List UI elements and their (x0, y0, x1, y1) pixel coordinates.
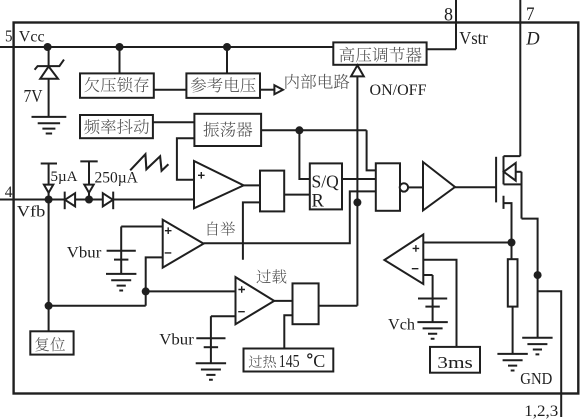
block overload latch (293, 283, 319, 324)
wire osc to S input (299, 130, 309, 179)
svg-text:7: 7 (526, 5, 535, 25)
op-amp bootstrap comparator (163, 220, 204, 268)
svg-text:3ms: 3ms (437, 353, 473, 372)
overload label (256, 269, 270, 283)
wire overload plus input (146, 290, 236, 292)
internal circuits label (285, 74, 299, 89)
wire gate to driver (408, 186, 423, 188)
svg-text:5µA: 5µA (51, 169, 78, 185)
node source sense junction (508, 239, 516, 247)
resistor sense (508, 259, 518, 306)
block blanking (260, 171, 284, 212)
wire Q output to gate (342, 178, 376, 180)
node on ON/OFF line (353, 198, 361, 206)
wire resistor to ground (512, 307, 514, 354)
node Vfb-zener-column junction (45, 196, 53, 204)
wire Vfb down to reset (48, 200, 50, 332)
op-amp PWM comparator (194, 161, 244, 208)
wire thermal to latch (284, 315, 292, 348)
svg-text:Vfb: Vfb (17, 204, 46, 221)
svg-text:8: 8 (444, 5, 453, 25)
svg-text:R: R (312, 191, 325, 211)
wire driver to MOSFET gate (455, 186, 496, 188)
flip-flop S/Q R latch (310, 163, 342, 209)
diode D2 right (112, 192, 114, 210)
block high voltage regulator (333, 42, 426, 64)
wire blanking to R input (284, 194, 310, 196)
wire burst comparator to blanking (243, 202, 260, 259)
MOSFET body arrow (504, 163, 516, 181)
svg-text:1,2,3: 1,2,3 (524, 403, 558, 419)
zener diode 7V wire (48, 47, 50, 117)
svg-text:D: D (525, 30, 540, 50)
gate block with inverter bubble (376, 163, 400, 211)
node ground branch junction (534, 271, 542, 279)
svg-text:Vcc: Vcc (19, 28, 45, 45)
svg-text:Vbur: Vbur (67, 244, 102, 261)
wire osc to PWM comparator (177, 138, 195, 180)
wire reference output to internal circuits (260, 89, 274, 91)
wire bootstrap plus input (121, 226, 163, 228)
bootstrap label (208, 222, 218, 236)
wire overload minus input (211, 315, 236, 317)
wire osc to gate top input (367, 130, 376, 170)
ground source branch (522, 338, 552, 355)
wire source to ground branch (522, 219, 538, 338)
block UVLO undervoltage lockout (80, 73, 154, 97)
svg-text:ON/OFF: ON/OFF (370, 82, 427, 99)
wire to pins 123 (538, 291, 562, 417)
wire UVLO to reference (154, 89, 187, 91)
op-amp overload comparator (236, 277, 275, 324)
wire ON/OFF vertical (356, 76, 358, 305)
svg-text:4: 4 (5, 184, 13, 201)
wire PWM comparator output (244, 184, 260, 186)
block oscillator (194, 114, 261, 146)
wire reset row (49, 305, 146, 307)
battery Vbur 2 (210, 316, 212, 363)
current source 5uA (41, 163, 57, 165)
wire bootstrap minus input (146, 257, 163, 305)
wire jitter to oscillator (153, 121, 195, 123)
svg-text:Vbur: Vbur (159, 331, 194, 348)
wire burst minus input (423, 274, 432, 276)
pin 8 wire (455, 0, 457, 49)
sawtooth waveform symbol (130, 154, 168, 171)
ground below zener (32, 117, 67, 134)
transistor MOSFET channel bar (503, 156, 505, 209)
wire oscillator output (261, 129, 367, 131)
node burst junction (142, 287, 150, 295)
svg-text:C: C (313, 351, 325, 371)
svg-text:7V: 7V (24, 86, 43, 106)
wire overload latch output (319, 305, 358, 307)
node oscillator output junction (295, 126, 303, 134)
wire HV regulator to pin 8 (427, 48, 456, 50)
battery Vch (432, 275, 434, 322)
buffer driver triangle (423, 162, 455, 210)
node Vcc-zener junction (44, 43, 52, 51)
svg-text:145: 145 (279, 351, 300, 371)
wire MOSFET drain (504, 155, 521, 157)
battery Vbur 1 (120, 227, 122, 274)
block 3ms timer (430, 347, 480, 373)
zener diode 7V symbol (35, 60, 64, 70)
svg-text:Vch: Vch (388, 317, 415, 334)
pin 5 wire Vcc rail (0, 46, 333, 48)
wire bootstrap output to gate bottom input (204, 191, 376, 243)
node Vcc-ref junction (223, 43, 231, 51)
diode D1 left (64, 192, 66, 210)
wire Vcc to reference (226, 47, 228, 73)
pin 4 wire Vfb (0, 199, 194, 201)
svg-text:5: 5 (5, 27, 13, 46)
svg-text:250µA: 250µA (95, 170, 139, 187)
wire overload output (274, 300, 292, 302)
node Vcc-UVLO junction (116, 43, 124, 51)
svg-text:GND: GND (520, 369, 552, 388)
wire Vcc to UVLO (119, 47, 121, 73)
node Vfb-250uA junction (85, 196, 93, 204)
ON/OFF arrow into HV regulator (351, 65, 364, 76)
wire MOSFET body-source (504, 172, 522, 219)
node reset junction (45, 302, 53, 310)
block thermal shutdown 145C (244, 349, 334, 372)
block reference voltage (186, 73, 260, 98)
transistor power MOSFET gate bar (495, 157, 497, 203)
current source 250uA (80, 160, 97, 162)
wire burst plus input (423, 242, 511, 244)
ground below resistor (497, 354, 527, 371)
svg-text:S/Q: S/Q (312, 172, 339, 192)
block reset (30, 331, 73, 354)
svg-text:Vstr: Vstr (459, 28, 488, 48)
wire burst to 3ms timer (423, 260, 456, 347)
block frequency jitter (80, 115, 153, 138)
pin 7 wire (519, 0, 521, 156)
op-amp burst comparator (384, 235, 423, 285)
wire MOSFET source to sense resistor (504, 203, 512, 259)
